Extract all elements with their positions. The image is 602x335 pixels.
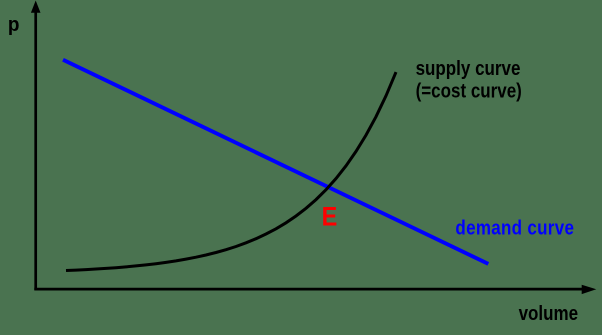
x-axis arrowhead: [582, 285, 597, 294]
y-axis line: [34, 12, 37, 290]
svg-text:volume: volume: [519, 302, 578, 325]
supply curve (black exponential): [66, 72, 396, 270]
label volume (x-axis): [519, 302, 578, 325]
demand curve (blue line): [63, 60, 488, 264]
label supply curve line 2: [416, 79, 522, 102]
label demand curve: [455, 216, 574, 239]
svg-text:supply curve: supply curve: [416, 57, 521, 80]
label supply curve line 1: [416, 57, 521, 80]
svg-text:(=cost curve): (=cost curve): [416, 79, 522, 102]
x-axis line: [34, 288, 583, 291]
label p (y-axis): [8, 13, 20, 36]
label E (equilibrium point): [322, 202, 338, 232]
svg-text:p: p: [8, 13, 20, 36]
svg-text:E: E: [322, 202, 338, 232]
svg-text:demand curve: demand curve: [455, 216, 574, 239]
y-axis arrowhead: [31, 1, 41, 13]
